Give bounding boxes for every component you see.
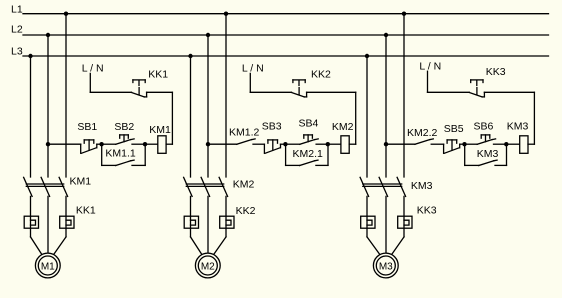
wire phase C below contact group 2 bbox=[225, 196, 227, 237]
label coil KM2 bbox=[332, 121, 354, 133]
svg-text:KM2: KM2 bbox=[233, 178, 255, 190]
wire L2 rail bbox=[23, 34, 549, 36]
node L2 tap group 1 bbox=[46, 33, 50, 37]
net L2 label bbox=[11, 23, 23, 35]
wire coil KM1 to return riser bbox=[166, 143, 172, 145]
svg-text:KM2.1: KM2.1 bbox=[293, 148, 324, 160]
svg-text:KK2: KK2 bbox=[311, 69, 331, 81]
wire KK2 contact to return riser bbox=[307, 91, 356, 93]
label KK3 heaters bbox=[417, 205, 437, 217]
node control tap group 2 bbox=[206, 142, 210, 146]
svg-text:KM3: KM3 bbox=[411, 180, 433, 192]
motor M1 bbox=[35, 253, 60, 278]
svg-text:SB4: SB4 bbox=[299, 118, 319, 130]
coil KM1 bbox=[158, 136, 166, 154]
label KK1 contact bbox=[148, 69, 168, 81]
wire L3 rail bbox=[23, 55, 549, 57]
thermal relay KK1 heater phase A bbox=[24, 216, 38, 228]
node L1 tap group 1 bbox=[64, 12, 68, 16]
thermal relay KK2 heater phase A bbox=[184, 216, 198, 228]
wire control row from tap group 2 bbox=[208, 143, 237, 145]
label KK1 heaters bbox=[76, 205, 96, 217]
wire SB1 to SB2 bbox=[102, 143, 116, 145]
node control tap group 3 bbox=[384, 142, 388, 146]
pushbutton SB3 (NC stop) bbox=[264, 140, 285, 153]
wire phase B below contact group 3 bbox=[385, 196, 387, 253]
wire motor lead A group 3 bbox=[367, 237, 380, 255]
svg-text:M3: M3 bbox=[379, 261, 393, 272]
svg-text:SB3: SB3 bbox=[262, 120, 282, 132]
label SB3 bbox=[262, 120, 282, 132]
svg-text:KK1: KK1 bbox=[76, 205, 96, 217]
label KK3 contact bbox=[486, 66, 506, 78]
label KK2 contact bbox=[311, 69, 331, 81]
node after SB4 bbox=[326, 142, 330, 146]
svg-text:KM2.2: KM2.2 bbox=[407, 127, 438, 139]
node L1 tap group 3 bbox=[402, 12, 406, 16]
wire coil KM2 to return riser bbox=[349, 143, 356, 145]
thermal relay KK3 heater phase C bbox=[398, 216, 412, 228]
label SB2 bbox=[114, 121, 134, 133]
label KK2 heaters bbox=[236, 205, 256, 217]
wire motor lead C group 2 bbox=[214, 237, 226, 255]
interlock contact KM1.2 bbox=[237, 139, 255, 144]
node after SB2 bbox=[143, 142, 147, 146]
wire phase A below contact group 3 bbox=[366, 196, 368, 237]
wire motor lead C group 3 bbox=[392, 237, 404, 255]
svg-text:KM1.2: KM1.2 bbox=[229, 127, 260, 139]
svg-text:M2: M2 bbox=[201, 261, 215, 272]
wire return riser group 3 bbox=[533, 92, 535, 144]
wire L/N drop group 2 bbox=[249, 73, 251, 92]
wire phase A drop group 3 bbox=[366, 56, 368, 177]
node after SB1 bbox=[99, 142, 103, 146]
wire phase B drop group 1 bbox=[47, 35, 49, 177]
node after SB5 bbox=[462, 142, 466, 146]
wire coil KM3 to return riser bbox=[528, 143, 534, 145]
label KM1.2 bbox=[229, 127, 260, 139]
pushbutton SB4 (NO start) bbox=[300, 135, 328, 144]
svg-text:L1: L1 bbox=[11, 3, 23, 15]
svg-text:SB6: SB6 bbox=[474, 121, 494, 133]
wire control row from tap group 3 bbox=[386, 143, 415, 145]
svg-text:L2: L2 bbox=[11, 23, 23, 35]
wire to coil KM3 bbox=[506, 143, 519, 145]
svg-text:KM2: KM2 bbox=[332, 121, 354, 133]
svg-text:KK1: KK1 bbox=[148, 69, 168, 81]
contactor KM1 main contacts bbox=[24, 177, 68, 196]
wire motor lead C group 1 bbox=[54, 237, 66, 255]
label L/N group 1 bbox=[82, 62, 104, 74]
svg-text:SB1: SB1 bbox=[77, 121, 97, 133]
wire phase C drop group 3 bbox=[403, 14, 405, 177]
svg-text:L / N: L / N bbox=[419, 60, 441, 72]
wire SB3 to SB4 bbox=[285, 143, 299, 145]
wire phase C below contact group 3 bbox=[403, 196, 405, 237]
contactor KM3 main contacts bbox=[360, 177, 406, 196]
svg-text:KM3: KM3 bbox=[507, 120, 529, 132]
node L2 tap group 2 bbox=[206, 33, 210, 37]
label KM3 main bbox=[411, 180, 433, 192]
label KM1.1 latch bbox=[105, 148, 136, 160]
wire L/N to KK1 contact bbox=[90, 91, 131, 93]
pushbutton SB6 (NO start) bbox=[477, 135, 506, 144]
wire phase C drop group 1 bbox=[65, 14, 67, 177]
motor M3 bbox=[373, 253, 398, 278]
svg-text:L3: L3 bbox=[11, 45, 23, 57]
contactor KM2 main contacts bbox=[184, 177, 228, 196]
wire L/N drop group 3 bbox=[427, 71, 429, 92]
wire phase A below contact group 2 bbox=[190, 196, 192, 237]
wire KK3 contact to return riser bbox=[484, 91, 534, 93]
wire return riser group 1 bbox=[171, 92, 173, 144]
node after SB3 bbox=[283, 142, 287, 146]
wire to coil KM1 bbox=[145, 143, 158, 145]
node L2 tap group 3 bbox=[384, 33, 388, 37]
wire L/N to KK3 contact bbox=[428, 91, 470, 93]
wire phase C drop group 2 bbox=[225, 14, 227, 177]
wire phase B drop group 2 bbox=[207, 35, 209, 177]
label KM2.2 bbox=[407, 127, 438, 139]
label coil KM3 bbox=[507, 120, 529, 132]
wire motor lead A group 2 bbox=[191, 237, 202, 255]
svg-text:KM1: KM1 bbox=[149, 124, 171, 136]
pushbutton SB5 (NC stop) bbox=[444, 140, 465, 153]
wire control row from tap group 1 bbox=[48, 143, 81, 145]
label KM1 main bbox=[70, 175, 92, 187]
thermal relay KK2 heater phase C bbox=[220, 216, 234, 228]
wire phase B below contact group 2 bbox=[207, 196, 209, 253]
interlock contact KM2.2 bbox=[415, 139, 433, 144]
label L/N group 3 bbox=[419, 60, 441, 72]
wire phase B drop group 3 bbox=[385, 35, 387, 177]
svg-text:L / N: L / N bbox=[242, 63, 264, 75]
label KM2 main bbox=[233, 178, 255, 190]
label coil KM1 bbox=[149, 124, 171, 136]
motor M2 bbox=[195, 253, 220, 278]
wire L/N drop group 1 bbox=[89, 73, 91, 92]
svg-text:L / N: L / N bbox=[82, 62, 104, 74]
auxiliary contact KM2.1 (latch) bbox=[286, 144, 328, 165]
wire to coil KM2 bbox=[328, 143, 341, 145]
wire KK1 contact to return riser bbox=[147, 91, 173, 93]
auxiliary contact KM3 (latch) bbox=[465, 144, 507, 165]
coil KM3 bbox=[520, 136, 528, 154]
svg-text:M1: M1 bbox=[41, 261, 55, 272]
node L3 tap group 1 bbox=[28, 54, 32, 58]
svg-text:SB2: SB2 bbox=[114, 121, 134, 133]
node L3 tap group 2 bbox=[188, 54, 192, 58]
wire motor lead A group 1 bbox=[31, 237, 42, 255]
thermal relay KK1 heater phase C bbox=[60, 216, 74, 228]
net L3 label bbox=[11, 45, 23, 57]
svg-text:KM1.1: KM1.1 bbox=[105, 148, 136, 160]
label SB6 bbox=[474, 121, 494, 133]
svg-text:SB5: SB5 bbox=[444, 123, 464, 135]
coil KM2 bbox=[341, 136, 349, 154]
auxiliary contact KM1.1 (latch) bbox=[102, 144, 146, 165]
wire SB5 to SB6 bbox=[465, 143, 478, 145]
label SB1 bbox=[77, 121, 97, 133]
label KM2.1 latch bbox=[293, 148, 324, 160]
wire phase A drop group 2 bbox=[190, 56, 192, 177]
wire after KM1.2 bbox=[253, 143, 264, 145]
thermal contact KK1 (NC) bbox=[132, 80, 147, 97]
svg-text:KK3: KK3 bbox=[486, 66, 506, 78]
node L1 tap group 2 bbox=[224, 12, 228, 16]
svg-text:KK3: KK3 bbox=[417, 205, 437, 217]
thermal relay KK3 heater phase A bbox=[361, 216, 375, 228]
wire L1 rail bbox=[23, 13, 549, 15]
wire phase A below contact group 1 bbox=[30, 196, 32, 237]
node L3 tap group 3 bbox=[365, 54, 369, 58]
label SB4 bbox=[299, 118, 319, 130]
pushbutton SB2 (NO start) bbox=[116, 135, 145, 144]
label L/N group 2 bbox=[242, 63, 264, 75]
pushbutton SB1 (NC stop) bbox=[81, 140, 102, 153]
node after SB6 bbox=[504, 142, 508, 146]
svg-text:KK2: KK2 bbox=[236, 205, 256, 217]
wire phase B below contact group 1 bbox=[47, 196, 49, 253]
label KM3 latch bbox=[477, 148, 499, 160]
wire phase A drop group 1 bbox=[30, 56, 32, 177]
wire phase C below contact group 1 bbox=[65, 196, 67, 237]
label SB5 bbox=[444, 123, 464, 135]
thermal contact KK2 (NC) bbox=[292, 80, 307, 97]
net L1 label bbox=[11, 3, 23, 15]
svg-text:KM1: KM1 bbox=[70, 175, 92, 187]
wire return riser group 2 bbox=[355, 92, 357, 144]
node control tap group 1 bbox=[46, 142, 50, 146]
thermal contact KK3 (NC) bbox=[469, 80, 484, 97]
wire after KM2.2 bbox=[431, 143, 443, 145]
svg-text:KM3: KM3 bbox=[477, 148, 499, 160]
wire L/N to KK2 contact bbox=[250, 91, 291, 93]
